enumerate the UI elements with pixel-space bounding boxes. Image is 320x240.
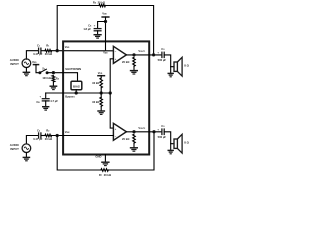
svg-text:+: +	[39, 95, 41, 99]
power VDD switch	[33, 64, 40, 66]
svg-text:0.47 µF: 0.47 µF	[33, 137, 43, 141]
ground	[101, 162, 109, 165]
wire	[45, 93, 47, 98]
audio input 1	[22, 59, 31, 68]
svg-text:500 µF: 500 µF	[158, 135, 167, 139]
wire	[26, 136, 38, 145]
node bypass div	[100, 92, 102, 94]
wire	[100, 88, 102, 98]
svg-text:GND: GND	[95, 154, 101, 158]
wire	[97, 31, 99, 34]
svg-text:VOUT2: VOUT2	[138, 126, 145, 130]
resistor R2	[45, 134, 52, 137]
resistor 20k load1	[133, 57, 136, 66]
wire	[52, 82, 54, 86]
wire	[105, 6, 153, 55]
ground	[168, 150, 174, 153]
wire	[164, 55, 174, 67]
node VDD	[104, 20, 106, 22]
svg-text:CO: CO	[161, 124, 165, 128]
speaker LS1	[174, 57, 182, 76]
ground	[23, 157, 31, 160]
svg-text:CB: CB	[36, 100, 40, 104]
svg-text:C2: C2	[37, 129, 41, 133]
wire	[41, 50, 45, 52]
svg-text:CO: CO	[161, 47, 165, 51]
capacitor CB	[42, 98, 50, 100]
svg-text:90 kΩ: 90 kΩ	[92, 100, 99, 104]
ground	[42, 107, 49, 110]
svg-text:100 kΩ: 100 kΩ	[42, 76, 51, 80]
svg-text:VDD: VDD	[98, 71, 103, 75]
svg-text:C1: C1	[37, 43, 41, 47]
wire	[126, 131, 161, 133]
node fb2	[153, 131, 155, 133]
ground	[97, 111, 105, 114]
wire	[164, 132, 174, 144]
pin GND wire	[104, 155, 106, 162]
svg-text:Bypass: Bypass	[65, 94, 75, 98]
svg-text:20 kΩ: 20 kΩ	[122, 60, 130, 64]
svg-text:BIAS: BIAS	[73, 85, 80, 89]
svg-text:R5: R5	[93, 0, 97, 4]
ground	[23, 72, 31, 75]
ground	[168, 73, 174, 76]
wire	[110, 59, 113, 93]
resistor R1	[45, 49, 52, 52]
svg-text:CS: CS	[88, 24, 92, 28]
audio input 2	[22, 144, 31, 153]
svg-text:VDD: VDD	[32, 60, 37, 64]
ground	[50, 86, 58, 89]
wire	[45, 101, 47, 106]
svg-text:SHUTDOWN: SHUTDOWN	[65, 67, 81, 71]
svg-text:S1: S1	[42, 68, 45, 71]
capacitor C1	[38, 48, 40, 54]
resistor 50k upper	[100, 78, 103, 88]
node bypass rail	[109, 92, 111, 94]
wire bypass	[46, 92, 111, 94]
svg-text:R7: R7	[99, 173, 103, 177]
bias block	[71, 81, 82, 89]
speaker LS2	[174, 134, 182, 153]
resistor R5	[99, 4, 105, 7]
wire	[100, 106, 102, 110]
power VDD	[101, 16, 109, 18]
svg-text:INPUT: INPUT	[10, 147, 19, 151]
wire	[57, 6, 99, 51]
svg-text:VIN2: VIN2	[65, 130, 70, 134]
svg-text:R4: R4	[56, 77, 60, 80]
wire	[41, 135, 45, 137]
switch S1	[39, 72, 41, 74]
capacitor CO2	[161, 128, 163, 135]
wire	[108, 132, 154, 170]
svg-text:20 kΩ: 20 kΩ	[45, 137, 53, 141]
wire	[25, 68, 27, 72]
wire plus rail	[110, 93, 113, 128]
wire	[126, 54, 161, 56]
svg-text:+: +	[115, 57, 117, 61]
pin VDD stub	[105, 41, 107, 49]
svg-text:VDD: VDD	[102, 11, 107, 15]
svg-text:+: +	[157, 50, 159, 54]
node fb1	[152, 54, 154, 56]
node SD	[52, 72, 54, 74]
op-amp U1 box	[63, 41, 149, 154]
svg-text:VIN1: VIN1	[65, 45, 70, 49]
wire	[133, 66, 135, 70]
svg-text:20 kΩ: 20 kΩ	[104, 173, 112, 177]
node out1	[133, 54, 135, 56]
wire SD	[48, 72, 63, 74]
svg-text:8 Ω: 8 Ω	[184, 141, 189, 145]
node A	[56, 50, 58, 52]
svg-text:20 kΩ: 20 kΩ	[45, 52, 53, 56]
node B	[56, 134, 58, 136]
wire	[52, 135, 114, 137]
svg-text:500 µF: 500 µF	[158, 58, 167, 62]
svg-text:R1: R1	[46, 43, 50, 47]
svg-text:+: +	[94, 24, 96, 28]
svg-text:R2: R2	[46, 129, 50, 133]
svg-text:INPUT: INPUT	[10, 62, 19, 66]
svg-text:VOUT1: VOUT1	[138, 49, 145, 53]
wire	[133, 143, 135, 147]
op-amp A1	[113, 46, 126, 63]
svg-text:20 kΩ: 20 kΩ	[98, 0, 106, 4]
wire SD internal	[63, 73, 77, 82]
svg-text:0.47 µF: 0.47 µF	[33, 52, 43, 56]
wire	[75, 90, 77, 93]
capacitor CS	[94, 28, 102, 30]
svg-text:1.8 µF: 1.8 µF	[83, 27, 91, 31]
power VDD internal	[97, 75, 105, 77]
svg-text:−: −	[115, 49, 117, 53]
wire	[170, 144, 172, 150]
wire	[170, 67, 172, 73]
svg-text:4.7 µF: 4.7 µF	[50, 99, 58, 103]
wire	[26, 51, 38, 60]
ground	[130, 148, 138, 151]
resistor 50k lower	[100, 97, 103, 106]
node bias	[75, 92, 77, 94]
node out2	[133, 131, 135, 133]
svg-text:8 Ω: 8 Ω	[184, 64, 189, 68]
resistor R7	[101, 169, 108, 172]
wire	[57, 136, 101, 171]
wire	[52, 50, 114, 52]
ground	[94, 35, 102, 38]
capacitor CO1	[161, 52, 163, 59]
op-amp A2	[113, 123, 126, 140]
svg-text:20 kΩ: 20 kΩ	[122, 137, 130, 141]
svg-text:90 kΩ: 90 kΩ	[92, 81, 99, 85]
svg-text:+: +	[115, 127, 117, 131]
wire	[25, 153, 27, 157]
resistor 20k load2	[133, 134, 136, 143]
ground	[130, 71, 138, 74]
wire	[98, 22, 106, 29]
resistor 100k	[52, 75, 55, 82]
capacitor C2	[38, 132, 40, 138]
svg-text:+: +	[157, 127, 159, 131]
